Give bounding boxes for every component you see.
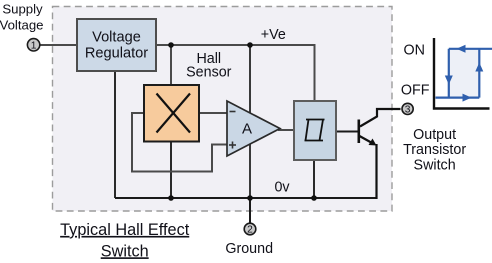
op-amp A bbox=[227, 101, 280, 156]
svg-text:Supply: Supply bbox=[2, 2, 43, 17]
svg-text:Sensor: Sensor bbox=[186, 65, 232, 81]
wire: schmitt trigger output to transistor base bbox=[336, 131, 358, 133]
svg-text:Regulator: Regulator bbox=[85, 46, 148, 62]
svg-text:Output: Output bbox=[413, 127, 456, 143]
hysteresis loop: left falling edge (arrow down) bbox=[445, 49, 453, 98]
wire: hall output wrap-around to op-amp non-inverting input bbox=[132, 113, 228, 172]
junction: ground 0v node bbox=[247, 195, 253, 201]
svg-text:3: 3 bbox=[405, 105, 411, 116]
junction: schmitt bottom 0v node bbox=[311, 195, 317, 201]
hall sensor element X bbox=[144, 85, 199, 142]
label: Output Transistor Switch bbox=[403, 127, 466, 173]
svg-text:Ground: Ground bbox=[225, 241, 273, 257]
pin 1 terminal bbox=[27, 39, 39, 52]
label: Supply Voltage bbox=[0, 2, 44, 33]
dashed enclosure (IC boundary) bbox=[53, 7, 393, 212]
svg-text:1: 1 bbox=[31, 41, 37, 52]
wire: hall sensor top supply drop bbox=[170, 45, 172, 86]
wire: op-amp supply line (behind triangle) bbox=[249, 45, 251, 198]
schmitt trigger U1 bbox=[294, 101, 336, 160]
wire: hall output to op-amp inverting input bbox=[199, 112, 228, 114]
wire: +Ve top rail from regulator to schmitt feed corner bbox=[156, 45, 315, 101]
hysteresis graph axes bbox=[434, 38, 490, 109]
wire: op-amp output to schmitt trigger bbox=[278, 129, 294, 131]
hysteresis loop: right rising edge (arrow up) bbox=[475, 49, 483, 98]
svg-text:Switch: Switch bbox=[414, 157, 456, 173]
svg-text:Typical Hall Effect: Typical Hall Effect bbox=[60, 221, 190, 239]
title: Typical Hall Effect Switch bbox=[60, 221, 190, 260]
label: Hall Sensor bbox=[186, 51, 232, 81]
junction: +Ve op-amp supply node bbox=[247, 42, 253, 48]
svg-text:Voltage: Voltage bbox=[92, 30, 141, 46]
wire: hall sensor bottom drop to 0v rail bbox=[170, 141, 172, 198]
wire: regulator bottom drop to 0v rail bbox=[114, 71, 116, 198]
svg-text:2: 2 bbox=[247, 225, 253, 236]
junction: regulator output node bbox=[168, 42, 174, 48]
hysteresis loop: ON level line (arrow left) bbox=[449, 45, 492, 53]
wire: ground drop to pin 2 bbox=[249, 198, 251, 223]
junction: hall bottom 0v node bbox=[168, 195, 174, 201]
pin 2 terminal bbox=[244, 223, 256, 236]
wire: collector to output pin 3 bbox=[360, 109, 401, 127]
wire: supply input to voltage regulator bbox=[40, 44, 78, 46]
hysteresis loop fill bbox=[449, 49, 480, 98]
svg-text:Voltage: Voltage bbox=[0, 18, 44, 33]
svg-text:ON: ON bbox=[404, 42, 425, 58]
transistor Q1 (NPN) bbox=[359, 120, 377, 146]
wire: 0v bottom rail bbox=[115, 197, 377, 199]
wire: emitter drop to 0v rail bbox=[375, 144, 377, 199]
svg-text:Switch: Switch bbox=[101, 242, 149, 260]
svg-text:0v: 0v bbox=[274, 180, 290, 196]
hysteresis loop: OFF level line (arrow right) bbox=[436, 94, 480, 102]
svg-text:OFF: OFF bbox=[401, 82, 430, 98]
svg-text:Transistor: Transistor bbox=[403, 142, 466, 158]
svg-text:A: A bbox=[242, 121, 252, 138]
svg-text:+Ve: +Ve bbox=[261, 27, 286, 43]
pin 3 terminal bbox=[402, 103, 413, 115]
wire: schmitt trigger bottom drop to 0v rail bbox=[313, 160, 315, 198]
voltage regulator box bbox=[77, 19, 156, 71]
